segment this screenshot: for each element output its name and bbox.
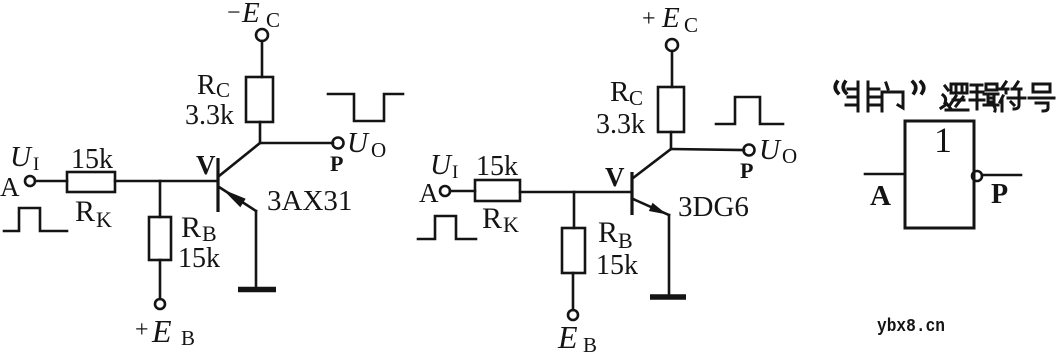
wire input to R_K (left)	[35, 180, 67, 183]
svg-text:C: C	[266, 8, 280, 32]
wire R_B to E_B terminal (left)	[159, 260, 162, 299]
wire collector junction to output (middle)	[671, 149, 744, 150]
label R_K (left)	[75, 195, 112, 232]
ground (middle)	[650, 294, 686, 300]
wire +E_C to R_C (middle)	[671, 51, 674, 87]
svg-text:15k: 15k	[476, 151, 518, 182]
svg-text:U: U	[10, 141, 33, 173]
svg-text:U: U	[759, 134, 782, 166]
NOT gate box U1	[905, 121, 974, 228]
svg-text:A: A	[0, 172, 20, 202]
wire R_B to E_B terminal (middle)	[572, 273, 575, 310]
output waveform pulse (middle)	[716, 97, 783, 124]
input waveform pulse (middle)	[418, 216, 476, 239]
svg-text:3.3k: 3.3k	[185, 100, 234, 131]
node +E_B terminal (left)	[155, 299, 165, 309]
node +E_C terminal (middle)	[666, 39, 678, 51]
svg-text:B: B	[583, 333, 597, 354]
node A terminal (left)	[25, 176, 35, 186]
resistor R_B (left)	[149, 217, 171, 260]
label R_C (middle)	[610, 76, 643, 110]
svg-text:15k: 15k	[596, 250, 638, 281]
wire collector junction to output (left)	[260, 142, 333, 145]
label +E_B (left)	[135, 313, 195, 350]
resistor R_C (middle)	[658, 87, 684, 132]
svg-text:P: P	[740, 158, 753, 183]
title "非门" 逻辑符号 (hand-drawn glyph paths)	[835, 82, 1054, 111]
svg-text:R: R	[598, 216, 618, 249]
svg-text:I: I	[452, 162, 458, 183]
input waveform pulse (left)	[4, 208, 67, 231]
label U_O (left output)	[347, 127, 386, 162]
svg-text:B: B	[181, 326, 195, 350]
svg-text:V: V	[196, 150, 216, 180]
label R_B (middle)	[598, 216, 633, 253]
label -E_C (left supply)	[227, 0, 280, 32]
svg-text:I: I	[33, 154, 39, 175]
wire R_C to collector junction (left)	[259, 122, 262, 143]
svg-text:3.3k: 3.3k	[596, 109, 645, 140]
label E_B (middle)	[557, 319, 597, 354]
node P output terminal (left)	[333, 138, 344, 149]
svg-text:E: E	[557, 319, 578, 354]
wire R_C to collector junction (middle)	[670, 132, 673, 149]
svg-text:R: R	[197, 70, 216, 101]
svg-text:U: U	[430, 149, 453, 181]
label U_O (middle output)	[759, 134, 797, 168]
label U_I (middle input voltage)	[430, 149, 458, 183]
label R_K (middle)	[482, 202, 519, 237]
node A terminal (middle)	[440, 186, 450, 196]
svg-text:E: E	[151, 313, 172, 349]
wire junction to R_B (middle)	[573, 192, 576, 228]
inversion bubble (gate output)	[972, 171, 982, 181]
svg-text:K: K	[96, 207, 112, 232]
svg-text:ybx8.cn: ybx8.cn	[877, 317, 945, 337]
svg-text:+: +	[642, 6, 656, 32]
svg-text:3DG6: 3DG6	[678, 191, 749, 223]
svg-text:O: O	[782, 144, 797, 168]
wire junction to R_B (left)	[159, 181, 162, 217]
svg-text:15k: 15k	[71, 144, 113, 175]
svg-text:O: O	[371, 138, 386, 162]
svg-text:R: R	[610, 76, 630, 108]
wire emitter to ground (left)	[255, 211, 258, 288]
wire output P (gate)	[982, 174, 1021, 177]
svg-text:C: C	[629, 86, 643, 110]
svg-text:C: C	[684, 13, 698, 37]
svg-text:R: R	[482, 202, 502, 235]
svg-text:1: 1	[934, 120, 952, 160]
output waveform inverted pulse (left)	[328, 94, 403, 121]
svg-text:A: A	[419, 178, 439, 208]
label +E_C (middle supply)	[642, 2, 698, 37]
svg-text:15k: 15k	[178, 243, 220, 274]
svg-text:3AX31: 3AX31	[267, 185, 352, 217]
svg-text:−: −	[227, 0, 241, 26]
ground (left)	[238, 287, 276, 293]
label R_B (left)	[181, 211, 217, 246]
resistor R_K (left)	[67, 172, 115, 192]
node -E_C terminal (left)	[256, 29, 268, 41]
node E_B terminal (middle)	[568, 310, 578, 320]
resistor R_K (middle)	[475, 180, 520, 201]
svg-text:R: R	[75, 195, 95, 228]
svg-text:P: P	[330, 151, 343, 176]
label R_C (left)	[197, 70, 230, 102]
wire emitter to ground (middle)	[668, 215, 671, 295]
svg-text:K: K	[503, 212, 519, 237]
wire input A (gate)	[865, 173, 905, 176]
svg-text:R: R	[181, 211, 201, 244]
svg-text:E: E	[241, 0, 260, 29]
label U_I (left input voltage)	[10, 141, 39, 175]
svg-text:U: U	[347, 127, 370, 159]
wire input to R_K (middle)	[450, 190, 475, 193]
svg-text:+: +	[135, 317, 149, 343]
transistor V 3DG6 (NPN, middle)	[632, 149, 671, 215]
resistor R_B (middle)	[562, 228, 585, 273]
wire -E_C to R_C (left)	[261, 41, 264, 77]
svg-text:C: C	[216, 78, 230, 102]
resistor R_C (left)	[246, 77, 273, 122]
svg-text:A: A	[870, 180, 891, 212]
svg-text:V: V	[605, 162, 625, 192]
node P output terminal (middle)	[744, 145, 755, 156]
wire R_K to base (left)	[115, 180, 217, 183]
transistor V 3AX31 (PNP, left)	[218, 143, 260, 212]
svg-text:P: P	[991, 179, 1008, 210]
svg-text:E: E	[661, 2, 680, 34]
wire R_K to base (middle)	[520, 191, 631, 194]
